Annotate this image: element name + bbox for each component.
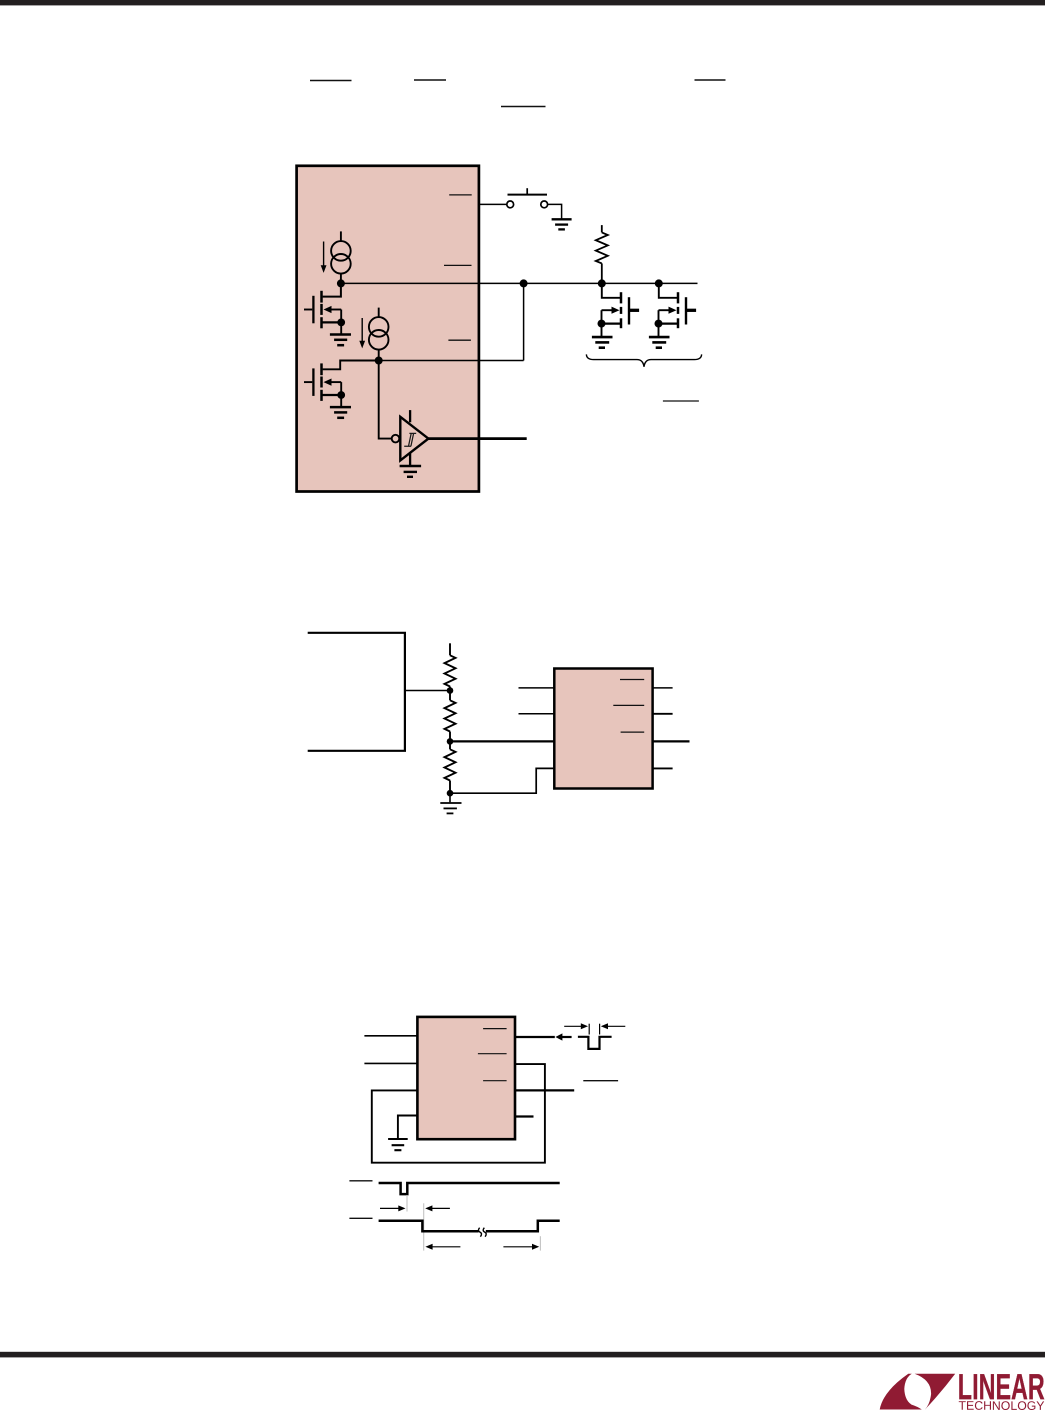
- main output wire: [341, 282, 698, 284]
- overline pin label (U3 pin3): [483, 1080, 507, 1082]
- overline pin label ON (inside U1 top): [449, 194, 472, 196]
- overline mark (signal name) top row 1: [310, 80, 352, 82]
- transistor M1 (internal): [304, 283, 341, 328]
- guide line 2: [423, 1203, 425, 1250]
- U2 left pin stub 2: [519, 713, 555, 715]
- wire pushbutton to ground: [548, 204, 562, 219]
- bottom footer bar: [0, 1352, 1045, 1358]
- overline pin label (U2 pin3): [621, 731, 645, 733]
- wire M2 source to ground: [340, 395, 342, 407]
- waveform 2 trace: [379, 1221, 560, 1232]
- overline label waveform 2: [349, 1217, 372, 1219]
- wire I2 node to schmitt input: [379, 361, 392, 439]
- overline pin label (U2 pin1): [620, 679, 644, 681]
- arrow right (period): [503, 1246, 534, 1248]
- node dot N4: [655, 279, 663, 287]
- IC U1 shaded block: [297, 166, 479, 492]
- node dot divider 3: [447, 790, 454, 797]
- Linear Technology logo LT mark left blade: [880, 1374, 922, 1410]
- transistor M2 (internal): [304, 363, 341, 401]
- overline label right of U3: [583, 1080, 618, 1082]
- U3 left pin stub 1: [364, 1035, 417, 1037]
- feedback wire vertical: [523, 283, 525, 360]
- node dot divider 1: [447, 687, 454, 694]
- transistor Q2 (external NMOS): [658, 283, 697, 328]
- node dot N2: [520, 279, 528, 287]
- regulator block (open left): [308, 633, 405, 751]
- wire pin1 to pushbutton: [479, 203, 507, 205]
- schmitt output wire: [428, 437, 526, 440]
- schmitt trigger U1a: [400, 417, 428, 461]
- U3 left pin stub 2: [364, 1062, 417, 1064]
- node dot Q1 source: [598, 320, 606, 328]
- ground (pushbutton): [552, 219, 572, 229]
- node dot divider 2: [447, 738, 454, 745]
- top header bar: [0, 0, 1045, 5]
- wire divider tap to IC2: [450, 740, 554, 742]
- arrow (I2 direction): [361, 318, 363, 342]
- arrow left (period): [430, 1246, 460, 1248]
- resistor R4 divider bottom: [445, 741, 456, 793]
- schmitt power pin: [409, 410, 411, 422]
- node dot Q2 source: [655, 320, 663, 328]
- wire divider to ground: [449, 793, 451, 802]
- schmitt trigger U1a input bubble: [392, 435, 400, 443]
- feedback wire horizontal to pin3: [379, 360, 524, 362]
- U2 right pin stub 4: [653, 767, 673, 769]
- transistor Q1 (external NMOS): [601, 283, 640, 328]
- wire M1 source to ground: [340, 322, 342, 334]
- wire Q2 source to ground: [658, 324, 660, 337]
- U3 pin R3 wire: [515, 1089, 574, 1091]
- U3 pin R4 wire: [515, 1115, 534, 1117]
- schmitt ground pin: [409, 453, 411, 466]
- hysteresis symbol: [404, 433, 416, 446]
- overline label waveform 1: [349, 1180, 372, 1182]
- U3 pin L4 ground wire: [398, 1116, 418, 1139]
- overline mark top row 3: [695, 79, 726, 81]
- ground (U3): [388, 1139, 408, 1150]
- wire I2 to M2 drain: [323, 361, 379, 370]
- waveform 1 trace: [379, 1183, 560, 1194]
- ground (Q1): [592, 337, 613, 348]
- node dot I2 out: [375, 357, 383, 365]
- tick marks pulse width: [588, 1024, 590, 1035]
- wire Q1 source to ground: [601, 324, 603, 337]
- ground (divider): [440, 803, 461, 813]
- U2 left pin stub 1: [519, 687, 555, 689]
- U3 pin R1 wire with arrow: [515, 1036, 555, 1038]
- U2 right pin stub 3: [653, 740, 690, 742]
- U3 pin R2 loop wire: [372, 1064, 545, 1163]
- ground (M1): [330, 335, 351, 346]
- guide line 1: [406, 1195, 408, 1212]
- arrow left (delay): [430, 1207, 450, 1209]
- node dot N1: [337, 279, 345, 287]
- break symbol: [478, 1228, 481, 1237]
- guide line 3: [539, 1236, 541, 1250]
- U2 right pin stub 2: [653, 713, 673, 715]
- pushbutton S1: [507, 188, 548, 208]
- current source I1: [331, 231, 351, 283]
- wire regulator to divider: [405, 690, 450, 692]
- arrow right (pulse width): [564, 1025, 583, 1027]
- overline pin label (U2 pin2): [613, 704, 644, 706]
- overline mark second row: [501, 106, 546, 108]
- pulse waveform (reset pulse): [578, 1037, 612, 1049]
- current source I2: [369, 308, 389, 361]
- ground (schmitt): [400, 466, 422, 477]
- ground (M2): [330, 407, 351, 418]
- brace under Q1 Q2: [586, 354, 701, 366]
- logo LT mark right blade: [915, 1374, 956, 1410]
- overline mark top row 2: [414, 79, 446, 81]
- ground (Q2): [649, 337, 670, 348]
- node dot M2 source: [337, 391, 345, 399]
- resistor R2 divider top: [445, 643, 456, 690]
- overline pin label (inside U1 lower): [448, 339, 471, 341]
- IC U2 shaded block: [554, 669, 652, 789]
- node dot N3: [598, 279, 606, 287]
- overline label under brace: [663, 400, 699, 402]
- IC U3 shaded block: [417, 1017, 515, 1139]
- node dot M1 source: [337, 319, 345, 327]
- resistor R3 divider mid: [445, 691, 456, 742]
- arrow (I1 direction): [323, 242, 325, 267]
- overline pin label (U3 pin1): [483, 1028, 507, 1030]
- overline pin label (inside U1 mid): [444, 264, 472, 266]
- arrow right (delay): [380, 1207, 401, 1209]
- overline pin label (U3 pin2): [478, 1053, 507, 1055]
- arrow left (pulse width): [606, 1025, 626, 1027]
- svg-text:TECHNOLOGY: TECHNOLOGY: [958, 1399, 1044, 1411]
- resistor R1 pull-up: [596, 225, 608, 283]
- U2 right pin stub 1: [653, 687, 673, 689]
- wire lower tap to IC2: [450, 768, 554, 793]
